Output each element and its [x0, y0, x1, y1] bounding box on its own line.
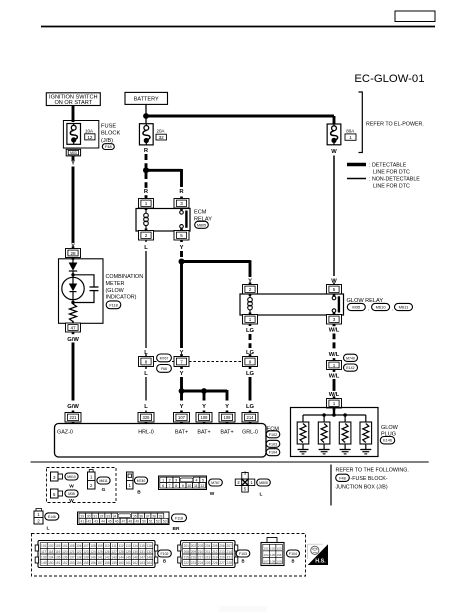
svg-text:LINE FOR DTC: LINE FOR DTC [373, 169, 410, 175]
svg-text:31: 31 [93, 514, 97, 518]
svg-text:BR: BR [173, 526, 180, 532]
svg-text:M767: M767 [160, 356, 169, 360]
svg-text:METER: METER [106, 281, 125, 287]
svg-text:214: 214 [247, 415, 255, 420]
svg-text:161: 161 [126, 561, 132, 565]
svg-text:11: 11 [194, 484, 198, 488]
svg-text:5: 5 [180, 233, 183, 238]
svg-text:214: 214 [227, 550, 233, 554]
svg-text:127: 127 [111, 550, 117, 554]
connector F48 [102, 144, 114, 150]
svg-text:L: L [47, 526, 50, 532]
svg-text:F104: F104 [269, 451, 277, 455]
wire R to ECM relay pin 3 [180, 189, 183, 198]
connector E146 [380, 437, 394, 444]
connector M610 [65, 473, 78, 480]
node Y junction [179, 259, 185, 265]
svg-text:45: 45 [108, 520, 112, 524]
connector F103 [266, 440, 280, 447]
wire LG relay to connector [249, 334, 252, 348]
connector M35 [65, 490, 78, 497]
refer divider [330, 465, 332, 506]
connector M805 oval [257, 479, 271, 486]
svg-text:(GLOW: (GLOW [106, 288, 125, 294]
label COMBINATION METER [106, 274, 144, 300]
page footer bar [219, 606, 267, 612]
svg-text:226: 226 [212, 561, 218, 565]
svg-text:222: 222 [184, 561, 190, 565]
ECM relay pin 3 [174, 197, 189, 211]
svg-text:BATTERY: BATTERY [134, 96, 159, 102]
top rule [41, 26, 435, 28]
svg-text:36: 36 [139, 514, 143, 518]
svg-text:126: 126 [104, 550, 110, 554]
svg-text:208: 208 [184, 550, 190, 554]
svg-text:221: 221 [70, 415, 78, 420]
svg-text:205: 205 [212, 544, 218, 548]
svg-text:33: 33 [106, 514, 110, 518]
wire battery to 80A fuse [146, 115, 334, 118]
node Y junction 1 [179, 388, 185, 394]
svg-text:132: 132 [147, 550, 153, 554]
svg-text:204: 204 [205, 544, 211, 548]
wire L connector to ECM [145, 377, 147, 401]
svg-text:206: 206 [219, 544, 225, 548]
svg-text:8: 8 [145, 359, 148, 364]
ground glow plug 3 [340, 450, 351, 454]
svg-text:12: 12 [200, 484, 204, 488]
svg-text:REFER TO THE FOLLOWING.: REFER TO THE FOLLOWING. [336, 468, 409, 474]
wire Y ignition to meter [72, 167, 75, 244]
wire W/L connector to glow plug [333, 379, 336, 399]
legend detectable text [369, 163, 410, 176]
svg-text:G: G [102, 487, 106, 493]
svg-text:41: 41 [81, 520, 85, 524]
svg-text:W: W [210, 491, 215, 497]
svg-text:2: 2 [249, 287, 252, 292]
svg-text:L: L [144, 404, 148, 410]
svg-text:108: 108 [90, 544, 96, 548]
glow plug 2 [318, 415, 330, 450]
svg-text:225: 225 [205, 561, 211, 565]
svg-text:121: 121 [69, 550, 75, 554]
resistor in meter [69, 304, 76, 322]
svg-text:123: 123 [83, 550, 89, 554]
svg-text:125: 125 [97, 550, 103, 554]
svg-text:107: 107 [264, 560, 269, 564]
svg-text:LG: LG [246, 371, 255, 377]
svg-text:EC-GLOW-01: EC-GLOW-01 [354, 73, 424, 85]
fuse number 12 [85, 134, 95, 140]
svg-text:48: 48 [128, 520, 132, 524]
connector M611 [97, 477, 110, 484]
svg-text:1: 1 [349, 135, 352, 140]
svg-text:221: 221 [227, 555, 233, 559]
svg-text:201: 201 [184, 544, 190, 548]
svg-text:M805: M805 [259, 481, 268, 485]
wire R junction branch [146, 169, 182, 172]
svg-text:FUSE: FUSE [101, 123, 116, 129]
glow plug 1 [297, 415, 309, 450]
svg-text:220: 220 [219, 555, 225, 559]
svg-text:REFER TO EL-POWER.: REFER TO EL-POWER. [366, 122, 424, 128]
svg-text:223: 223 [191, 561, 197, 565]
svg-text:: NON-DETECTABLE: : NON-DETECTABLE [369, 177, 420, 183]
wire ignition to fuse block [72, 106, 75, 123]
wire Y branch BAT+ [182, 390, 228, 393]
svg-text:224: 224 [198, 561, 204, 565]
node glow bus 2 [343, 413, 347, 417]
svg-text:136: 136 [62, 555, 68, 559]
connector M740 oval [134, 477, 147, 484]
connector icon F118 strip [78, 512, 170, 525]
svg-text:117: 117 [41, 550, 46, 554]
svg-text:7: 7 [180, 359, 183, 364]
svg-text:B: B [137, 490, 141, 496]
inline connector dashed line [154, 361, 174, 363]
svg-text:157: 157 [97, 561, 103, 565]
node meter branch bottom [71, 301, 74, 304]
wire stub M03 [72, 156, 75, 161]
connector F48 oval [336, 474, 350, 481]
svg-text:L: L [144, 371, 148, 377]
svg-text:: DETECTABLE: : DETECTABLE [369, 163, 407, 169]
connector M740 [344, 354, 358, 361]
svg-text:47: 47 [70, 325, 76, 330]
svg-text:146: 146 [133, 555, 139, 559]
svg-text:80A: 80A [346, 129, 354, 134]
svg-text:,: , [368, 306, 369, 311]
glow relay pin 2 [243, 283, 258, 297]
wire battery down [145, 105, 147, 124]
svg-text:47: 47 [122, 520, 126, 524]
svg-text:M35: M35 [68, 492, 75, 496]
svg-text:5: 5 [333, 287, 336, 292]
label R [143, 188, 149, 195]
svg-text:F102: F102 [269, 433, 277, 437]
node glow bus 1 [322, 413, 326, 417]
svg-text:B: B [291, 559, 294, 564]
connector pin 9 [243, 354, 258, 369]
svg-text:Y: Y [180, 371, 184, 377]
inline connector pin 1 [327, 358, 342, 372]
svg-text:G/W: G/W [67, 337, 79, 343]
svg-text:BAT+: BAT+ [197, 429, 210, 435]
svg-text:52: 52 [156, 520, 160, 524]
svg-text:,: , [392, 306, 393, 311]
svg-text:102: 102 [48, 544, 54, 548]
node R junction [143, 167, 149, 173]
svg-text:131: 131 [140, 550, 146, 554]
connector pin 8 [139, 354, 154, 369]
svg-text:164: 164 [147, 561, 153, 565]
dashed group box row3 [32, 534, 306, 577]
svg-text:160: 160 [118, 561, 124, 565]
connector F102 oval [158, 550, 172, 557]
svg-text:3: 3 [180, 201, 183, 206]
svg-text:213: 213 [219, 550, 225, 554]
combination meter box [59, 259, 104, 324]
svg-text:122: 122 [76, 550, 82, 554]
svg-text:E142: E142 [346, 366, 354, 370]
svg-text:108: 108 [270, 560, 275, 564]
svg-text:162: 162 [133, 561, 139, 565]
svg-text:144: 144 [118, 555, 124, 559]
connector icon F103 grid [178, 541, 238, 568]
svg-text:HRL-0: HRL-0 [138, 429, 154, 435]
svg-text:LINE FOR DTC: LINE FOR DTC [373, 183, 410, 189]
node battery junction [143, 113, 149, 119]
glow plug bus wire [303, 414, 366, 416]
connector icon E146 [34, 509, 43, 525]
svg-text:142: 142 [104, 555, 110, 559]
svg-text:133: 133 [41, 555, 47, 559]
connector F118 oval [172, 514, 187, 522]
label W/L [328, 326, 341, 333]
label W/L [328, 391, 341, 398]
svg-text:Y: Y [180, 245, 184, 251]
legend thin line [347, 178, 366, 180]
svg-text:130: 130 [133, 550, 139, 554]
ECM pin 108 [196, 411, 212, 425]
fuse number 1 [345, 134, 356, 140]
svg-text:M740: M740 [346, 356, 355, 360]
svg-text:F118: F118 [175, 516, 183, 520]
svg-text:Y: Y [202, 404, 206, 410]
wire W/L relay pin3 down [333, 324, 336, 351]
svg-text:32: 32 [159, 135, 165, 140]
svg-text:2: 2 [145, 233, 148, 238]
svg-text:32: 32 [100, 514, 104, 518]
svg-text:LG: LG [246, 328, 255, 334]
svg-text:139: 139 [83, 555, 89, 559]
label R [179, 188, 185, 195]
label ECM RELAY [194, 210, 212, 223]
svg-text:106: 106 [76, 544, 82, 548]
legend non-detectable text [369, 177, 420, 190]
svg-text:145: 145 [126, 555, 132, 559]
svg-text:ON OR START: ON OR START [54, 100, 92, 106]
svg-text:9: 9 [249, 359, 252, 364]
wire L relay to connector [145, 251, 147, 348]
fuse number 32 [156, 134, 166, 140]
glow relay pin 1 [243, 313, 258, 327]
svg-text:228: 228 [227, 561, 233, 565]
svg-text:154: 154 [76, 561, 82, 565]
ECM pin 325 [138, 411, 154, 425]
svg-text:L: L [260, 492, 263, 498]
label FUSE BLOCK (J/B) [101, 123, 120, 144]
svg-text:218: 218 [205, 555, 211, 559]
svg-text:Y: Y [71, 161, 75, 167]
svg-text:F103: F103 [269, 442, 277, 446]
connector icon M740 [127, 472, 134, 489]
svg-text:207: 207 [227, 544, 233, 548]
svg-text:30: 30 [87, 514, 91, 518]
ground glow plug 1 [298, 450, 309, 454]
svg-text:F48: F48 [339, 476, 346, 480]
connector E146 oval [45, 513, 59, 520]
ECM relay pin 2 [139, 229, 154, 243]
connector M767 oval [209, 479, 223, 486]
svg-text:20A: 20A [157, 128, 165, 133]
svg-text:107: 107 [178, 415, 186, 420]
wire R to ECM relay pin 1 [145, 173, 148, 198]
svg-text:135: 135 [55, 555, 61, 559]
node glow bus feed [332, 413, 336, 417]
connector F118 [106, 301, 121, 309]
connector F102 [266, 431, 280, 438]
svg-text:F118: F118 [109, 303, 117, 307]
glow plug 3 [339, 415, 351, 450]
svg-text:(J/B): (J/B) [101, 138, 113, 144]
svg-text:W/L: W/L [329, 328, 340, 334]
svg-text:GLOW: GLOW [381, 425, 399, 431]
svg-text:10A: 10A [85, 128, 93, 133]
wire LG connector to ECM [249, 377, 252, 401]
svg-text:F102: F102 [161, 552, 169, 556]
svg-text:W: W [69, 498, 74, 504]
page tab box [395, 11, 435, 22]
svg-text:150: 150 [48, 561, 54, 565]
ECM pin 221 [65, 411, 81, 425]
capacitor branch wire [73, 275, 94, 287]
connector E142 [344, 364, 358, 371]
connector M767 [157, 354, 172, 362]
svg-text:GRL-0: GRL-0 [242, 429, 258, 435]
svg-text:9: 9 [182, 484, 184, 488]
ECM pin 214 [242, 411, 258, 425]
glow relay body [240, 294, 344, 315]
svg-text:BLOCK: BLOCK [101, 131, 120, 137]
connector icon M35 [51, 489, 63, 498]
svg-text:103: 103 [277, 547, 282, 551]
svg-text:G/W: G/W [67, 404, 79, 410]
wire glow plug feed [333, 408, 335, 415]
battery box [125, 92, 168, 104]
svg-text:-FUSE BLOCK-: -FUSE BLOCK- [351, 476, 388, 482]
connector icon F102 grid [35, 541, 158, 568]
svg-text:46: 46 [115, 520, 119, 524]
ignition switch box [46, 93, 100, 106]
svg-text:JUNCTION BOX (J/B): JUNCTION BOX (J/B) [336, 484, 388, 490]
svg-text:F104: F104 [289, 552, 297, 556]
svg-text:COMBINATION: COMBINATION [106, 274, 144, 280]
svg-text:211: 211 [205, 550, 210, 554]
svg-text:BAT+: BAT+ [175, 429, 188, 435]
svg-text:W/L: W/L [329, 352, 340, 358]
svg-text:203: 203 [198, 544, 204, 548]
connector icon M611 [88, 470, 96, 490]
wire G/W meter to ECM [72, 343, 75, 401]
capacitor branch wire bottom [73, 291, 94, 303]
wire Y connector to junction [180, 377, 183, 401]
connector pin 7 [174, 354, 189, 369]
fuse 80A [327, 124, 341, 145]
svg-text:140: 140 [90, 555, 96, 559]
svg-text:10: 10 [187, 484, 191, 488]
svg-text:1: 1 [162, 479, 164, 483]
svg-text:LG: LG [246, 404, 255, 410]
capacitor [90, 287, 99, 291]
connector icon M610 [51, 472, 63, 481]
svg-text:29: 29 [80, 514, 84, 518]
svg-text:158: 158 [104, 561, 110, 565]
ground glow plug 4 [360, 450, 371, 454]
svg-text:F48: F48 [105, 144, 112, 149]
svg-text:110: 110 [105, 544, 110, 548]
svg-text:1: 1 [145, 201, 148, 206]
meter pin 28 [66, 246, 81, 259]
svg-text:137: 137 [69, 555, 75, 559]
svg-text:215: 215 [184, 555, 190, 559]
svg-text:M611: M611 [399, 305, 409, 310]
svg-text:217: 217 [198, 555, 204, 559]
ECM relay pin 1 [139, 197, 154, 211]
svg-text:M740: M740 [137, 479, 146, 483]
svg-text:147: 147 [140, 555, 146, 559]
svg-text:42: 42 [87, 520, 91, 524]
svg-text:F103: F103 [239, 552, 247, 556]
svg-text:155: 155 [83, 561, 89, 565]
connector M35 [347, 303, 365, 310]
svg-text:INDICATOR): INDICATOR) [106, 295, 137, 301]
svg-text:104: 104 [62, 544, 68, 548]
svg-text:116: 116 [147, 544, 152, 548]
svg-text:212: 212 [212, 550, 218, 554]
svg-text:105: 105 [69, 544, 75, 548]
svg-text:152: 152 [62, 561, 68, 565]
fuse 20A [139, 124, 153, 145]
fuse 10A [67, 124, 81, 145]
svg-text:E146: E146 [383, 439, 392, 443]
connector F66 [157, 365, 172, 373]
svg-text:53: 53 [163, 520, 167, 524]
connector icon M805 cross [235, 471, 255, 493]
svg-text:2: 2 [169, 479, 171, 483]
svg-text:49: 49 [135, 520, 139, 524]
svg-text:28: 28 [70, 251, 76, 256]
glow plug pin 1 [327, 396, 342, 410]
HS emblem [308, 544, 328, 565]
svg-text:109: 109 [224, 415, 232, 420]
svg-text:101: 101 [41, 544, 47, 548]
svg-text:156: 156 [90, 561, 96, 565]
svg-text:4: 4 [195, 479, 197, 483]
ECM relay M805 body [136, 209, 190, 232]
svg-text:216: 216 [191, 555, 197, 559]
diode [69, 263, 78, 275]
svg-text:118: 118 [48, 550, 53, 554]
svg-text:44: 44 [101, 520, 105, 524]
wire R fuse to junction [145, 154, 148, 168]
svg-text:3: 3 [333, 317, 336, 322]
connector icon F104 grid [261, 538, 284, 566]
svg-text:114: 114 [133, 544, 138, 548]
svg-text:124: 124 [90, 550, 96, 554]
svg-text:151: 151 [55, 561, 61, 565]
connector F103 oval [236, 550, 250, 557]
glow plug 4 [360, 415, 372, 450]
svg-text:38: 38 [152, 514, 156, 518]
svg-text:148: 148 [147, 555, 153, 559]
svg-text:129: 129 [126, 550, 132, 554]
svg-text:159: 159 [111, 561, 117, 565]
svg-text:102: 102 [270, 547, 275, 551]
svg-text:3: 3 [175, 479, 177, 483]
glow indicator lamp [62, 276, 84, 301]
svg-text:108: 108 [201, 415, 209, 420]
